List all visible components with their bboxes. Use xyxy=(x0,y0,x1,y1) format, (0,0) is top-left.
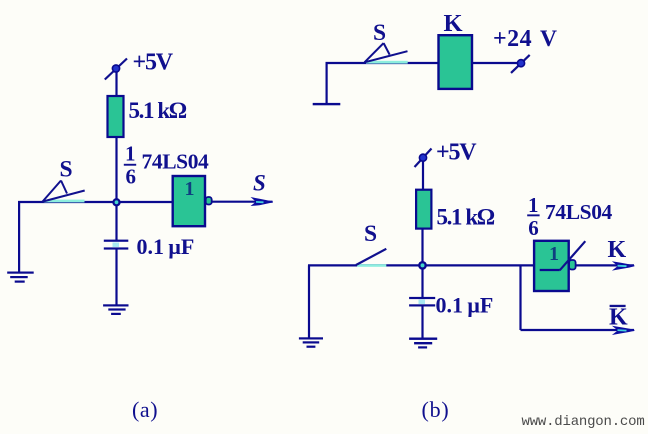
svg-text:74LS04: 74LS04 xyxy=(545,200,613,224)
switch S3 highlight xyxy=(357,264,386,267)
wire terminal to resistor R1 xyxy=(115,72,117,97)
terminal +24V xyxy=(511,55,530,73)
svg-text:0.1 μF: 0.1 μF xyxy=(436,293,494,318)
wire main row (b) xyxy=(308,264,534,266)
wire left drop (a) xyxy=(18,202,20,273)
node B junction xyxy=(418,261,427,270)
arrow output Kbar xyxy=(612,326,635,335)
arrow output S (a) xyxy=(251,197,274,206)
wire relay to terminal xyxy=(472,62,518,64)
svg-text:V: V xyxy=(540,26,557,52)
svg-text:K: K xyxy=(608,237,627,263)
capacitor C2 plates xyxy=(409,297,435,307)
ground bar (b top) xyxy=(313,103,341,105)
wire resistor to node B xyxy=(421,229,423,298)
wire branch drop to Kbar xyxy=(519,265,521,330)
svg-text:S: S xyxy=(60,156,73,182)
wire capacitor to ground (a) xyxy=(115,250,117,306)
output bubble U1 (a) xyxy=(206,197,212,205)
wire top row (b) xyxy=(326,62,439,64)
node A junction xyxy=(112,198,120,206)
svg-text:1: 1 xyxy=(528,193,539,217)
svg-text:S: S xyxy=(373,20,386,46)
wire resistor to node A xyxy=(115,137,117,240)
svg-text:74LS04: 74LS04 xyxy=(142,150,210,174)
wire left drop (b bottom) xyxy=(308,265,310,337)
svg-text:5.1 kΩ: 5.1 kΩ xyxy=(437,205,495,230)
svg-text:S: S xyxy=(253,170,266,195)
svg-text:(b): (b) xyxy=(422,397,450,422)
svg-text:0.1 μF: 0.1 μF xyxy=(137,234,195,259)
svg-text:+24: +24 xyxy=(493,26,532,52)
wire Kbar row xyxy=(521,329,635,331)
label Kbar output xyxy=(609,305,628,331)
arrow output K xyxy=(612,261,635,270)
svg-text:+5V: +5V xyxy=(436,139,477,165)
wire gate output (a) xyxy=(212,201,273,203)
resistor R2 5.1k xyxy=(416,190,431,229)
resistor R1 5.1k xyxy=(108,96,124,137)
switch S2 highlight xyxy=(366,61,408,64)
ground center (a) xyxy=(103,304,128,315)
wire left drop (b top) xyxy=(326,63,328,104)
svg-text:1: 1 xyxy=(185,178,195,200)
wire gate output K xyxy=(576,264,634,266)
svg-text:5.1 kΩ: 5.1 kΩ xyxy=(129,98,187,123)
switch S2 blade xyxy=(365,43,408,62)
ground center (b) xyxy=(409,338,437,349)
svg-text:+5V: +5V xyxy=(133,50,174,76)
relay coil K xyxy=(439,35,473,89)
label 1/6 fraction (a) xyxy=(124,142,136,189)
svg-text:6: 6 xyxy=(126,165,137,189)
wire terminal to resistor R2 xyxy=(422,161,424,191)
svg-text:1: 1 xyxy=(125,142,136,166)
terminal +5V (b) xyxy=(415,149,432,168)
svg-text:(a): (a) xyxy=(132,397,158,422)
svg-text:www.diangon.com: www.diangon.com xyxy=(522,414,645,430)
inverter U2 (b) xyxy=(534,241,569,291)
ground left (a) xyxy=(7,272,34,283)
output bubble U2 (b) xyxy=(569,260,576,270)
switch S3 blade xyxy=(356,249,386,265)
svg-text:1: 1 xyxy=(549,243,559,265)
svg-text:K: K xyxy=(609,305,628,331)
ground left (b bottom) xyxy=(299,337,323,348)
contact symbol in gate (b) xyxy=(540,241,586,270)
terminal +5V (a) xyxy=(105,59,127,80)
svg-text:K: K xyxy=(444,10,463,37)
wire capacitor to ground (b) xyxy=(421,307,423,339)
capacitor C1 plates xyxy=(104,240,129,250)
svg-text:S: S xyxy=(364,221,377,247)
switch S1 highlight xyxy=(43,200,85,203)
inverter U1 (a) xyxy=(173,176,205,226)
svg-text:6: 6 xyxy=(528,216,539,240)
label 1/6 fraction (b) xyxy=(527,193,539,240)
switch S1 blade xyxy=(43,181,85,202)
wire switch row (a) xyxy=(18,201,173,203)
